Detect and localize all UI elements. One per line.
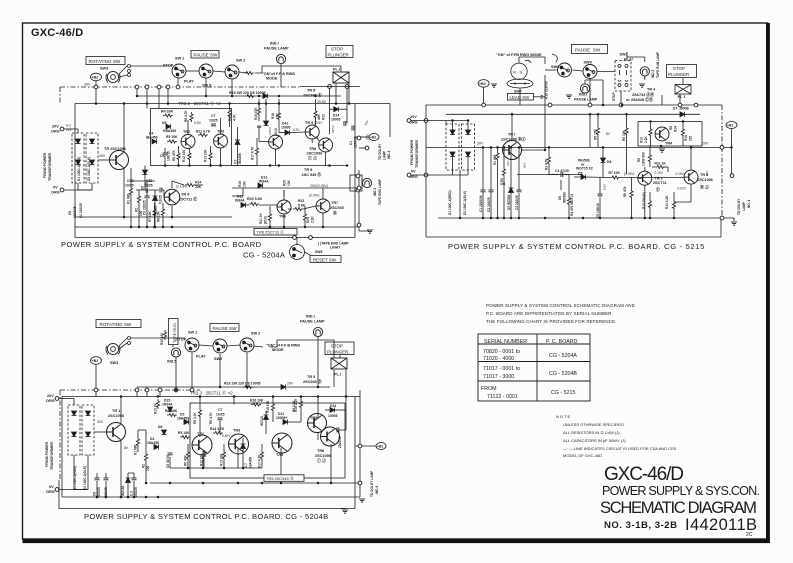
wire PL1 col left xyxy=(329,89,331,135)
capacitor C3 B xyxy=(517,190,522,192)
svg-text:PAUSE SW: PAUSE SW xyxy=(575,48,601,53)
svg-text:+B1: +B1 xyxy=(377,445,383,449)
junction dots A rails xyxy=(95,95,351,229)
wire bridge B conns xyxy=(446,121,468,219)
svg-text:R16 10K: R16 10K xyxy=(250,399,264,403)
svg-text:C8Σ: C8Σ xyxy=(146,179,152,183)
svg-text:71122 - 0001: 71122 - 0001 xyxy=(487,394,518,400)
svg-text:TO DOLBY LAMP: TO DOLBY LAMP xyxy=(370,470,374,497)
svg-text:TR2.3 25CT11 Ⓔ ×2: TR2.3 25CT11 Ⓔ ×2 xyxy=(178,100,221,107)
wire PL1 drop C right xyxy=(345,370,347,397)
diode D2a xyxy=(90,139,95,144)
wire TR1 B conns xyxy=(512,114,545,150)
svg-text:D3 WZ092: D3 WZ092 xyxy=(507,195,511,210)
switch SW2 xyxy=(225,65,239,79)
svg-text:R6 15K: R6 15K xyxy=(622,129,626,141)
wire R15 row xyxy=(137,95,341,97)
svg-text:C9: C9 xyxy=(68,211,72,215)
wire PCB B bottom xyxy=(426,236,721,238)
svg-text:R8 10K: R8 10K xyxy=(157,210,161,222)
svg-text:10/25: 10/25 xyxy=(125,184,134,188)
svg-text:2SC 945 Ⓓ: 2SC 945 Ⓓ xyxy=(302,172,322,177)
svg-text:D14: D14 xyxy=(330,404,336,408)
svg-text:TR4: TR4 xyxy=(665,142,673,146)
wire aux 148 xyxy=(359,147,365,149)
wire TR2 TR3 base xyxy=(620,177,684,179)
svg-text:SW3: SW3 xyxy=(100,67,108,71)
transistor TR10 xyxy=(269,135,283,149)
svg-text:R16 47K: R16 47K xyxy=(254,107,258,120)
svg-text:STOP: STOP xyxy=(331,47,343,52)
svg-text:25CT11 Ⓒ: 25CT11 Ⓒ xyxy=(179,197,197,202)
svg-text:220/25: 220/25 xyxy=(134,487,138,497)
wire PCB B right drop xyxy=(720,218,722,237)
wire gnd stub xyxy=(359,230,369,232)
svg-text:MODE: MODE xyxy=(272,348,284,352)
svg-text:+B1: +B1 xyxy=(370,136,376,140)
svg-text:R2: R2 xyxy=(135,208,139,212)
svg-text:D6: D6 xyxy=(158,425,162,429)
wire dash-dot left drop C xyxy=(59,390,61,480)
tape end switch box xyxy=(350,175,362,191)
svg-text:+B2: +B2 xyxy=(479,82,486,86)
svg-text:PL.I: PL.I xyxy=(333,68,340,72)
wire PCB top rail xyxy=(75,103,390,105)
svg-text:SW 2: SW 2 xyxy=(251,332,260,336)
svg-text:R10 2W (K): R10 2W (K) xyxy=(642,192,646,209)
wire SW9 drop C xyxy=(219,354,221,387)
svg-text:Ⓑ Ⓙ: Ⓑ Ⓙ xyxy=(700,185,709,190)
svg-text:PAUSE LAMP: PAUSE LAMP xyxy=(574,97,598,101)
wire SW row C xyxy=(129,337,185,339)
svg-text:SCHEMATIC DIAGRAM: SCHEMATIC DIAGRAM xyxy=(600,498,757,517)
svg-text:THE FOLLOWING CHART IS PRO: THE FOLLOWING CHART IS PROVIDED FOR REFE… xyxy=(486,319,617,324)
box STOP PLUNGER xyxy=(326,46,353,58)
svg-text:NOTE: NOTE xyxy=(556,414,571,419)
svg-text:ROTATING SW: ROTATING SW xyxy=(100,322,132,327)
wire TR1 base xyxy=(98,159,110,161)
svg-text:0.15V: 0.15V xyxy=(676,172,685,176)
wire bridge C bot xyxy=(74,455,88,490)
wire PL1 col right xyxy=(346,89,348,124)
svg-text:10005: 10005 xyxy=(281,126,291,130)
wire +B1 xyxy=(355,136,369,138)
resistor R4 470 B xyxy=(567,196,570,206)
diode D8 xyxy=(263,94,268,99)
bridge rectifier D2 xyxy=(86,133,98,183)
svg-text:100/16: 100/16 xyxy=(167,151,171,161)
junction dots B rails xyxy=(451,104,692,220)
svg-text:D5: D5 xyxy=(578,172,582,176)
svg-text:R13: R13 xyxy=(640,137,644,143)
svg-text:2SC945 Ⓓ: 2SC945 Ⓓ xyxy=(303,379,322,384)
svg-text:UNLESS OTHRWISE SPECIFIED: UNLESS OTHRWISE SPECIFIED xyxy=(563,422,624,427)
svg-text:100: 100 xyxy=(146,465,150,471)
svg-text:TR2.3 25CT11 Ⓔ ×2: TR2.3 25CT11 Ⓔ ×2 xyxy=(190,390,233,397)
svg-text:8V: 8V xyxy=(606,132,611,136)
svg-text:100: 100 xyxy=(500,182,506,186)
svg-text:32V: 32V xyxy=(97,420,104,424)
svg-text:SW 2: SW 2 xyxy=(236,59,245,63)
svg-text:R3 4.7K: R3 4.7K xyxy=(545,158,549,170)
svg-text:TR5 25C945 Ⓓ: TR5 25C945 Ⓓ xyxy=(266,475,294,481)
svg-text:SW6: SW6 xyxy=(315,250,322,254)
resistor R2b 100 C xyxy=(202,450,205,460)
bridge rectifier D2 C xyxy=(82,405,94,455)
svg-text:STOP: STOP xyxy=(176,338,187,342)
wires right cluster C xyxy=(318,397,346,484)
wire R10 drop xyxy=(230,104,258,166)
transistor TR1 xyxy=(110,151,129,170)
svg-text:STOP: STOP xyxy=(612,92,616,101)
wire lower rail xyxy=(75,226,359,228)
junction dots on box bottom xyxy=(164,164,167,167)
wire right lamp rail xyxy=(358,170,360,231)
node +B1 B xyxy=(726,122,737,129)
svg-text:NO. 4: NO. 4 xyxy=(747,199,751,208)
box TR2/TR3 C xyxy=(190,403,345,478)
resistor R1 680 B xyxy=(496,151,499,161)
svg-text:0V: 0V xyxy=(53,186,58,190)
svg-text:N - S: N - S xyxy=(513,69,522,74)
wire TR1 collector C xyxy=(120,397,122,425)
svg-text:D9: D9 xyxy=(558,196,562,200)
svg-text:18A459: 18A459 xyxy=(249,457,253,468)
wire TR8 rail xyxy=(232,187,359,189)
switch contacts SW3 xyxy=(119,65,131,78)
junction nodes bottom xyxy=(293,236,297,240)
node +B1 C xyxy=(376,443,386,450)
svg-text:29.5V: 29.5V xyxy=(317,100,327,104)
svg-text:R21 1K: R21 1K xyxy=(259,212,263,224)
wire PCB right edge xyxy=(354,104,356,238)
svg-text:10/25: 10/25 xyxy=(216,413,225,417)
svg-text:25A733 ⒶⒷ: 25A733 ⒶⒷ xyxy=(632,92,654,97)
svg-text:R11 1K: R11 1K xyxy=(655,162,667,166)
svg-text:TR 9: TR 9 xyxy=(305,121,313,125)
transistor TR9 xyxy=(305,125,319,139)
lamp IND.3 xyxy=(362,178,371,187)
resistor R1 680 C xyxy=(136,437,139,447)
diode D5 B xyxy=(581,175,586,180)
resistor R2 100 B xyxy=(502,167,505,177)
lamp IND.1 C xyxy=(313,327,322,336)
transistor TR7 xyxy=(316,199,330,213)
svg-text:C7: C7 xyxy=(211,114,215,118)
svg-text:TR7: TR7 xyxy=(331,201,338,205)
wire bus drops C xyxy=(136,390,138,397)
svg-text:FROM POWER: FROM POWER xyxy=(43,152,47,178)
svg-text:C5 47/16: C5 47/16 xyxy=(166,455,170,468)
wire box rail right ext xyxy=(232,165,348,167)
wire TR1 base C xyxy=(94,431,107,433)
svg-text:R8 474: R8 474 xyxy=(623,186,627,197)
diode D2b xyxy=(90,160,95,165)
wire SW2 drop xyxy=(231,79,233,96)
wire R3 B xyxy=(548,147,550,174)
bridge rectifier D1 B xyxy=(446,124,459,170)
svg-text:30V: 30V xyxy=(99,154,106,158)
node bottom rail B xyxy=(720,216,724,220)
zener D3 B xyxy=(509,188,514,193)
ground C right2 xyxy=(359,499,365,502)
svg-text:D2 100C-1(BLK): D2 100C-1(BLK) xyxy=(87,157,91,181)
wire TR1 emitter C xyxy=(120,440,122,497)
box TR6 25CT11 xyxy=(254,229,297,236)
svg-text:LAMP: LAMP xyxy=(383,150,387,160)
svg-text:POWER SUPPLY & SYSTEM CONT: POWER SUPPLY & SYSTEM CONTROL P.C. BOARD… xyxy=(84,512,328,521)
svg-text:IND.5: IND.5 xyxy=(167,360,176,364)
svg-text:+B2: +B2 xyxy=(92,359,99,363)
svg-text:R19 15K: R19 15K xyxy=(266,400,270,413)
svg-text:R4 33K: R4 33K xyxy=(161,110,174,114)
svg-text:SW9: SW9 xyxy=(584,61,592,65)
node bus 159 xyxy=(157,85,161,89)
diode D14 C xyxy=(330,408,335,413)
svg-text:FROM POWER: FROM POWER xyxy=(410,139,414,165)
svg-text:2SC945: 2SC945 xyxy=(330,206,344,210)
wire SW1-SW9 xyxy=(186,70,199,72)
svg-text:5.5V: 5.5V xyxy=(603,184,607,190)
ground B3 xyxy=(639,84,645,87)
diode ST xyxy=(680,112,685,117)
resistor R16 47K xyxy=(257,106,260,116)
svg-text:R14: R14 xyxy=(195,181,201,185)
svg-text:"ON"of F.F & RWD: "ON"of F.F & RWD xyxy=(262,72,295,76)
bridge rectifier D1 xyxy=(72,133,84,183)
diode D2a B xyxy=(466,130,471,135)
wire bus drop 159 xyxy=(158,87,160,109)
svg-text:R20 5.6K: R20 5.6K xyxy=(247,197,263,201)
svg-text:D1 100C-1(RED): D1 100C-1(RED) xyxy=(77,157,81,181)
svg-text:0.2V: 0.2V xyxy=(293,128,300,132)
svg-text:71020 - 4000: 71020 - 4000 xyxy=(483,356,514,362)
svg-text:10K: 10K xyxy=(243,180,247,187)
junction +B1 rail xyxy=(730,146,733,149)
svg-text:10005+: 10005+ xyxy=(276,416,287,420)
svg-text:MODE: MODE xyxy=(266,77,278,81)
wire B dashdot right xyxy=(721,105,723,218)
wire right outer rail C xyxy=(359,390,361,497)
svg-text:+B1: +B1 xyxy=(727,124,733,128)
wire dash-dot left drop xyxy=(59,87,61,104)
arrow to SW8 xyxy=(552,54,557,62)
box STOP PLUNGER B xyxy=(667,65,697,78)
box TR5 label C xyxy=(264,475,304,482)
wire SW2 out xyxy=(239,72,248,73)
svg-text:Ⓒ: Ⓒ xyxy=(656,187,660,192)
lamp IND.5 C xyxy=(171,348,180,357)
wire SW9-SW2 C xyxy=(227,345,240,346)
svg-text:WGT15 X2: WGT15 X2 xyxy=(576,167,593,171)
node +B2 xyxy=(91,73,102,81)
transistor TR4 xyxy=(164,189,180,205)
svg-text:TR8: TR8 xyxy=(317,449,324,453)
svg-text:PAUSE LAMP: PAUSE LAMP xyxy=(300,320,325,324)
svg-text:29V: 29V xyxy=(287,382,294,386)
svg-text:C3 220/25: C3 220/25 xyxy=(143,200,147,215)
node right rail C2 xyxy=(358,481,362,485)
wire lamp drop C xyxy=(317,337,319,387)
wires B right xyxy=(645,122,691,219)
svg-text:IND.I: IND.I xyxy=(270,42,279,46)
svg-text:FROM POWER: FROM POWER xyxy=(45,441,49,467)
svg-text:R6 47K: R6 47K xyxy=(172,149,176,161)
svg-text:TR9: TR9 xyxy=(310,416,317,420)
svg-text:2SC1098: 2SC1098 xyxy=(108,414,124,418)
svg-text:SW 1: SW 1 xyxy=(175,57,184,61)
svg-text:SW7: SW7 xyxy=(514,90,522,94)
node B 30V rail xyxy=(720,146,724,150)
diode D1a C xyxy=(72,411,77,416)
resistor R3 4.7K B xyxy=(547,155,550,165)
svg-text:R5 10K: R5 10K xyxy=(166,135,178,139)
wire bridge C top xyxy=(73,399,75,406)
wire left col drops xyxy=(131,168,155,227)
svg-text:R1 680: R1 680 xyxy=(127,193,131,204)
wire PCB bottom C xyxy=(59,480,355,509)
svg-text:R1 680: R1 680 xyxy=(493,154,497,165)
svg-text:10/25: 10/25 xyxy=(209,119,218,123)
resistor R3 10K C xyxy=(222,450,225,460)
svg-text:TR 2: TR 2 xyxy=(655,177,663,181)
svg-text:TR 4: TR 4 xyxy=(181,193,190,197)
bridge rectifier D2 B xyxy=(462,124,475,170)
svg-text:"ON" of F.FB RWG MODE: "ON" of F.FB RWG MODE xyxy=(496,53,542,57)
transistor TR2 B xyxy=(638,171,652,185)
svg-text:18A459: 18A459 xyxy=(147,441,159,445)
node bus C nodes xyxy=(94,388,98,392)
box ROTATING SW C xyxy=(96,320,141,328)
transistor TR3 C xyxy=(229,434,249,454)
node 0V xyxy=(60,188,64,192)
svg-text:CG - 5204A: CG - 5204A xyxy=(243,251,286,260)
svg-text:ALL RESISTORS IN Ω 1/4W (J: ALL RESISTORS IN Ω 1/4W (J). xyxy=(563,430,621,435)
wire B 30V rail xyxy=(426,146,732,148)
capacitor C2 B xyxy=(489,190,494,192)
svg-text:TR6: TR6 xyxy=(279,215,286,219)
lamp IND.1 xyxy=(276,54,285,63)
switch SW2 C xyxy=(240,338,254,352)
wire SW row to PL1 xyxy=(255,66,341,73)
wires mid box C xyxy=(170,397,301,479)
svg-text:PAUSE SW: PAUSE SW xyxy=(213,326,238,331)
wire PCB bottom xyxy=(75,237,355,239)
svg-text:A.C: A.C xyxy=(66,124,72,128)
capacitor C5 100/16 B xyxy=(598,194,603,196)
border frame thick bottom xyxy=(23,540,770,544)
svg-text:STOP: STOP xyxy=(163,64,174,68)
diode D9 xyxy=(264,121,269,126)
svg-text:TR 2SC1096: TR 2SC1096 xyxy=(104,147,126,151)
svg-text:R13 10K: R13 10K xyxy=(220,453,224,466)
wire inner rail C xyxy=(170,467,262,469)
resistor R15 xyxy=(245,94,255,97)
transistor TR9 C xyxy=(308,414,327,433)
svg-text:R12 100: R12 100 xyxy=(182,150,186,162)
switch SW1 C xyxy=(185,338,199,352)
svg-text:TR2: TR2 xyxy=(197,432,204,436)
wire lamp IND5 drop C xyxy=(175,357,177,390)
node right rail C xyxy=(358,444,362,448)
resistor R17 C xyxy=(260,450,263,460)
svg-text:R1 680: R1 680 xyxy=(134,444,138,455)
svg-text:ORG: ORG xyxy=(46,490,55,494)
switch SW1 xyxy=(172,64,186,78)
diode D2b C xyxy=(86,432,91,437)
capacitor C1 top xyxy=(344,121,346,126)
box TAPE RUN C xyxy=(169,319,179,345)
wire +B2 drop C xyxy=(95,364,97,397)
svg-text:R5 15K: R5 15K xyxy=(594,128,598,140)
svg-text:R5 10K: R5 10K xyxy=(178,431,190,435)
svg-text:0.7: 0.7 xyxy=(234,159,238,164)
title block xyxy=(600,464,760,538)
wires B caps col xyxy=(483,147,519,218)
svg-text:PLUNGER: PLUNGER xyxy=(328,52,349,57)
svg-text:D2 100C-1(BLK): D2 100C-1(BLK) xyxy=(463,191,467,215)
svg-text:2SC1096: 2SC1096 xyxy=(307,152,323,156)
svg-text:R10: R10 xyxy=(684,135,688,141)
resistor after SW2 xyxy=(244,71,254,74)
wire SW1-SW9 C xyxy=(199,345,213,346)
svg-text:SW8: SW8 xyxy=(551,65,559,69)
svg-text:2.2K: 2.2K xyxy=(644,136,648,143)
svg-text:R7 10K: R7 10K xyxy=(609,171,621,175)
svg-text:KBA459: KBA459 xyxy=(163,129,176,133)
svg-text:TRANSFORMER: TRANSFORMER xyxy=(415,140,419,168)
svg-text:R11 4.7K: R11 4.7K xyxy=(196,130,211,134)
svg-text:or 25A628 ⒸⒹ: or 25A628 ⒸⒹ xyxy=(626,97,653,102)
wire bus right ext xyxy=(300,86,360,88)
diode D1b B xyxy=(450,152,455,157)
svg-text:2.2K: 2.2K xyxy=(311,216,315,223)
switch contacts SW3 C xyxy=(119,337,131,350)
relay PL.1 xyxy=(333,72,349,83)
svg-text:2200/35: 2200/35 xyxy=(73,206,77,218)
zener D3 C xyxy=(126,478,131,483)
wire dash-dot bus C xyxy=(60,389,200,391)
svg-text:D1 100C-X(RED): D1 100C-X(RED) xyxy=(448,190,452,215)
svg-text:PAUSE SW: PAUSE SW xyxy=(194,53,219,58)
svg-text:STOP: STOP xyxy=(673,66,685,71)
wire SW9-SW2 xyxy=(213,71,225,72)
svg-text:TAPE RUN LAMP: TAPE RUN LAMP xyxy=(656,51,660,78)
node PL1 left xyxy=(328,85,332,89)
svg-text:FROM: FROM xyxy=(481,386,497,392)
resistor R6b 47K C xyxy=(186,450,189,460)
svg-text:R4 470 WGT13: R4 470 WGT13 xyxy=(570,194,574,216)
svg-text:TO DOLBY: TO DOLBY xyxy=(737,198,741,215)
resistor R12 1K xyxy=(314,109,317,119)
diode D2b B xyxy=(466,152,471,157)
svg-text:22K: 22K xyxy=(195,185,202,189)
svg-text:CG - 5215: CG - 5215 xyxy=(551,390,575,396)
wire PCB left edge C xyxy=(61,397,63,498)
capacitor C3 C xyxy=(132,478,137,480)
wire bus drop 168 xyxy=(167,87,169,104)
svg-text:0V: 0V xyxy=(411,170,416,174)
svg-text:C8: C8 xyxy=(93,492,97,496)
svg-text:30V: 30V xyxy=(705,171,709,176)
svg-text:IN34A: IN34A xyxy=(235,199,245,203)
capacitor C13 C xyxy=(337,428,339,433)
ground B4 xyxy=(659,149,665,152)
node 20V B xyxy=(407,119,411,123)
transistor TR2 C xyxy=(192,435,212,455)
node +B2 B xyxy=(478,80,489,88)
node B rail ocs xyxy=(482,103,486,107)
